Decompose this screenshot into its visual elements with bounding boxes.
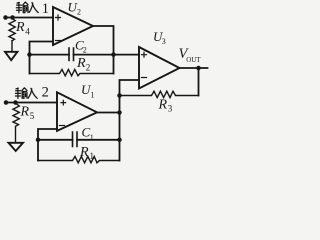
wire U3 inverting input [120, 80, 140, 161]
wire output feedback down [198, 68, 200, 96]
wire U1 inverting input [38, 129, 57, 161]
svg-text:2: 2 [42, 85, 49, 101]
node C2 left junction [27, 52, 32, 57]
svg-text:1: 1 [91, 91, 95, 100]
glyph 入 (2) [28, 88, 37, 98]
capacitor C2 [69, 48, 74, 61]
node R4 tap [10, 15, 15, 20]
wire R4 to ground [11, 41, 13, 52]
svg-text:2: 2 [86, 62, 91, 72]
svg-text:2: 2 [77, 8, 81, 17]
label 输入 1 [16, 2, 38, 13]
svg-text:R: R [158, 97, 168, 112]
glyph 输 (2) [15, 88, 20, 98]
op-amp U3 [139, 47, 180, 89]
svg-text:1: 1 [90, 151, 95, 161]
svg-text:2: 2 [83, 46, 87, 55]
svg-text:R: R [79, 145, 89, 160]
svg-text:R: R [76, 56, 86, 71]
svg-text:R: R [20, 105, 30, 120]
node C1 right junction [117, 138, 122, 143]
node U2 output junction [111, 52, 116, 57]
glyph 入 (1) [29, 3, 38, 13]
resistor R4 [9, 19, 15, 41]
resistor R3 [120, 91, 199, 97]
glyph 输 (1) [16, 2, 21, 12]
node R5 tap [13, 100, 18, 105]
ground (input 1) [5, 52, 17, 60]
svg-text:1: 1 [90, 133, 94, 142]
resistor R1 [38, 156, 120, 162]
wire C2 right to U3 + input [74, 54, 140, 56]
svg-text:OUT: OUT [186, 56, 201, 64]
wire C2 left [30, 54, 70, 56]
svg-text:R: R [15, 20, 25, 35]
wire C1 left [38, 139, 73, 141]
node input1 terminal [3, 15, 8, 20]
node U1 output junction [117, 110, 122, 115]
wire input2 horizontal [6, 102, 57, 104]
label 输入 2 [15, 88, 37, 99]
node output [196, 66, 201, 71]
resistor R2 [30, 69, 114, 75]
svg-text:5: 5 [30, 111, 35, 121]
wire input1 horizontal [6, 17, 54, 19]
wire C1 right [77, 139, 120, 141]
op-amp U2 [53, 7, 93, 45]
wire U2 output [93, 26, 114, 74]
wire U1 output [97, 112, 120, 114]
svg-text:3: 3 [168, 103, 173, 113]
resistor R5 [13, 104, 19, 127]
svg-text:1: 1 [42, 1, 49, 17]
svg-text:4: 4 [25, 27, 30, 37]
wire R5 to ground [15, 126, 17, 142]
capacitor C1 [73, 132, 78, 147]
wire U3 output [180, 67, 208, 69]
svg-text:3: 3 [162, 37, 166, 46]
node input2 terminal [4, 100, 9, 105]
ground (input 2) [9, 143, 24, 151]
op-amp U1 [57, 92, 97, 131]
node C1 left junction [36, 138, 41, 143]
node R3 junction [117, 93, 122, 98]
wire U2 inverting input [30, 42, 54, 74]
